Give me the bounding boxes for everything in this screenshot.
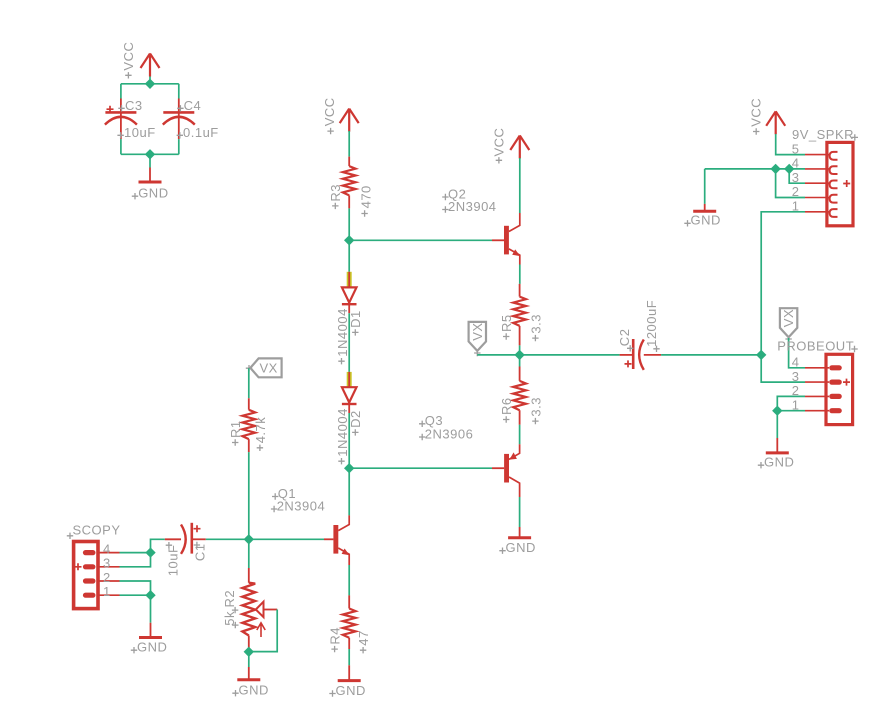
wire left branch lower [120,139,122,154]
wire node B to GND [149,154,151,167]
connector SCOPY [67,522,121,608]
resistor R6 3.3 [499,367,543,425]
wire VCC down to pin5 [776,134,805,155]
connector PROBEOUT [777,338,858,424]
wire pin1 to node N [777,410,805,412]
pin 4 of PROBEOUT [792,355,842,371]
svg-text:GND: GND [138,186,168,201]
node N junction (777.3,410.7) [772,406,782,416]
wire VX to C2 (main horizontal) [477,354,619,356]
wire R4 to GND [348,649,350,665]
svg-text:GND: GND [137,640,167,655]
wire left branch upper [120,84,122,99]
wire VCC to R3 [348,131,350,157]
svg-text:3.3: 3.3 [528,397,543,417]
wire R5 to node J [519,345,521,355]
transistor Q2 2N3904 [442,186,520,264]
svg-text:VX: VX [470,322,485,340]
resistor R3 470 [328,157,374,217]
wire C2 to node K [661,354,761,356]
transistor Q1 2N3904 [271,486,350,565]
label VCC (at 9V_SPKR, rotated) [749,98,764,135]
wire VX to R1 [248,368,250,398]
ground (below SCOPY) [131,623,168,655]
svg-text:GND: GND [336,683,366,698]
svg-text:R1: R1 [228,420,243,438]
svg-text:R4: R4 [328,627,343,645]
pin 1 of PROBEOUT [792,397,842,413]
wire node E down to R2 [248,539,250,568]
wire D1 to D2 [348,313,350,372]
svg-text:R6: R6 [499,397,514,415]
wire node E to Q1 base [249,538,324,540]
svg-text:2: 2 [103,570,111,585]
svg-text:10uF: 10uF [124,125,156,140]
ground (below Q3) [499,527,536,555]
wire R2 wiper loop to node H [249,610,277,652]
ground (left of 9V_SPKR) [684,204,721,228]
svg-text:VCC: VCC [322,97,337,126]
node F junction (150.5,552.6) [145,547,155,557]
net label VX (middle) [469,322,486,356]
pin 4 of 9V_SPKR [792,156,838,174]
svg-text:0.1uF: 0.1uF [183,125,219,140]
wire R3 to node C [348,208,350,240]
svg-text:2N3904: 2N3904 [277,498,326,513]
wire C1 to node E [206,538,249,540]
svg-text:VCC: VCC [749,98,764,127]
label VCC (above Q2, rotated) [492,128,507,164]
svg-text:D2: D2 [348,410,363,428]
resistor R4 47 [328,595,372,653]
node K junction (761.2,355) [756,350,766,360]
wire right branch upper [178,84,180,99]
wire node C down to D1 [348,240,350,271]
pin 2 of SCOPY [83,570,120,585]
wire node K down to pin3 of PROBEOUT [761,355,805,382]
connector 9V_SPKR [792,127,858,226]
svg-text:47: 47 [356,630,371,645]
wire pin1 to node K (long vertical) [761,212,805,355]
wire to GND (left of 9V_SPKR) [704,169,706,204]
wire node N to GND [776,411,778,438]
wire pin2 to node N [777,396,805,410]
potentiometer R2 5k [222,568,277,652]
wire SCOPY pin2 to node G [120,581,151,595]
wire bottom horizontal C3-C4 [121,153,179,155]
svg-text:9V_SPKR: 9V_SPKR [792,127,854,142]
svg-text:1N4004: 1N4004 [335,308,350,357]
wire Q3 collector to GND [519,497,521,527]
diode D2 1N4004 [335,372,363,465]
wire node H to GND [248,652,250,667]
net label VX (left, at top of R1) [246,358,282,377]
resistor R1 4.7k [228,398,268,452]
capacitor C1 10uF [165,523,208,576]
node C junction (349,240) [344,235,354,245]
svg-text:3: 3 [103,556,111,571]
wire Q2 emitter to R5 [519,265,521,284]
wire right branch lower [178,139,180,154]
pin 3 of 9V_SPKR [792,170,838,188]
wire Q1 emitter to R4 [348,565,350,595]
svg-text:GND: GND [506,540,536,555]
wire pin4 net with GND [705,168,805,170]
node L junction (775.6,169) [770,164,780,174]
label VCC (top-left, rotated) [121,42,136,79]
svg-text:4: 4 [792,355,800,370]
wire D2 to node D [348,413,350,468]
svg-text:C4: C4 [184,98,202,113]
wire node M down to pin3 [789,169,805,183]
node J junction (519.6,355) [514,350,524,360]
diode D1 1N4004 [335,272,363,365]
pin 4 of SCOPY [83,541,120,556]
ground (below R4) [329,665,366,698]
svg-text:VX: VX [260,361,278,376]
wire VX down to pin4 of PROBEOUT [789,338,805,368]
wire R6 to Q3 emitter [519,425,521,445]
svg-text:C1: C1 [193,543,208,561]
svg-text:5: 5 [792,141,800,156]
transistor Q3 2N3906 [419,413,520,497]
node B junction (150,154) [145,149,155,159]
svg-text:VCC: VCC [492,128,507,157]
pin 3 of SCOPY [83,556,120,571]
svg-text:C3: C3 [125,98,143,113]
svg-text:5k: 5k [222,611,237,626]
node A junction (150,84) [145,79,155,89]
resistor R5 3.3 [499,284,543,346]
node D junction (349,468) [344,463,354,473]
ground (below PROBEOUT) [758,438,795,470]
net label VX (right, at PROBEOUT) [780,308,797,342]
power VCC symbol (at 9V_SPKR) [766,111,785,134]
svg-text:470: 470 [359,185,374,208]
svg-text:D1: D1 [348,310,363,328]
svg-text:C2: C2 [617,329,632,347]
wire VCC stub to node A [149,77,151,84]
wire top horizontal C3-C4 [121,83,179,85]
svg-text:GND: GND [764,455,794,470]
pin 2 of 9V_SPKR [792,184,838,202]
node M junction (789.2,169) [784,164,794,174]
wire node J down to R6 [519,355,521,367]
svg-text:10uF: 10uF [166,545,181,577]
wire node C to Q2 base [349,239,492,241]
wire node L down to pin2 [776,169,805,198]
svg-text:GND: GND [239,683,269,698]
ground (below R2) [232,667,269,698]
power VCC symbol (above Q2) [510,136,529,159]
pin 1 of SCOPY [83,584,120,599]
svg-text:R3: R3 [328,184,343,202]
svg-text:R5: R5 [499,314,514,332]
svg-text:R2: R2 [222,590,237,608]
node G junction (150.5,595.2) [145,590,155,600]
wire node F up to C1 [151,539,165,552]
svg-text:4.7k: 4.7k [253,417,268,444]
wire SCOPY pin3 up to node F [120,553,151,567]
svg-text:VX: VX [781,309,796,327]
capacitor C3 10uF [105,98,156,140]
ground (top-left block) [132,168,169,201]
pin 2 of PROBEOUT [792,383,842,399]
capacitor C4 0.1uF [163,98,219,140]
svg-text:1N4004: 1N4004 [335,408,350,457]
power VCC symbol (top-left) [141,54,160,77]
node H junction (249,652) [244,647,254,657]
svg-text:3.3: 3.3 [528,314,543,334]
wire R1 to node E [248,452,250,539]
svg-text:1: 1 [103,584,111,599]
pin 1 of 9V_SPKR [792,199,838,217]
wire overlap highlight above D1 [347,272,352,288]
wire SCOPY pin4 to node F [120,552,151,554]
label VCC (above R3, rotated) [322,97,337,134]
capacitor C2 1200uF [617,300,661,370]
wire node D to Q3 base [349,467,492,469]
svg-text:SCOPY: SCOPY [73,522,121,537]
svg-text:VCC: VCC [121,42,136,71]
power VCC symbol (above R3) [340,109,359,132]
svg-text:3: 3 [792,369,800,384]
svg-text:PROBEOUT: PROBEOUT [777,338,854,353]
pin 3 of PROBEOUT [792,369,842,385]
svg-text:GND: GND [691,213,721,228]
svg-text:4: 4 [103,541,111,556]
svg-text:2N3904: 2N3904 [448,199,497,214]
pin 5 of 9V_SPKR [792,141,838,159]
node E junction (249,539) [244,534,254,544]
wire node D down to Q1 collector [348,468,350,515]
svg-text:2N3906: 2N3906 [425,426,474,441]
wire VCC to Q2 collector [519,158,521,213]
wire node G to GND [150,595,152,623]
svg-text:1200uF: 1200uF [644,300,659,347]
wire SCOPY pin1 to node G [120,594,151,596]
wire overlap highlight above D2 [347,372,352,387]
